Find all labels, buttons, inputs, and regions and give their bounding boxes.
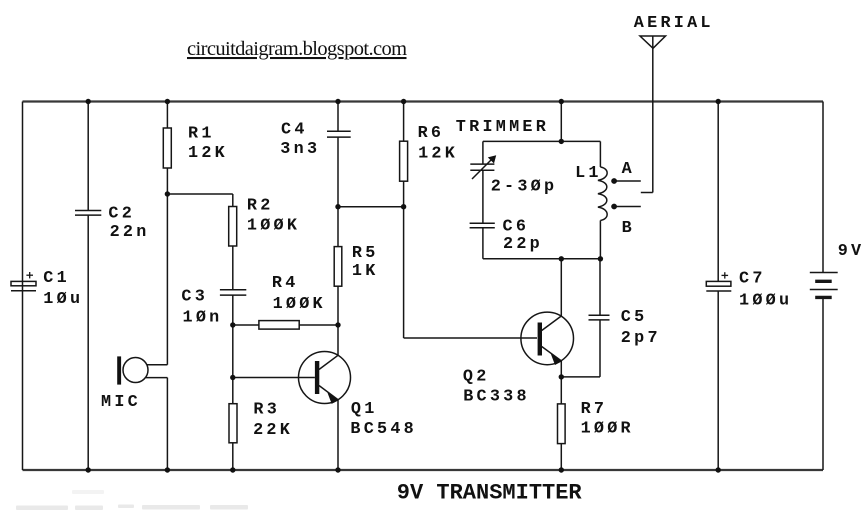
label C2: [108, 205, 149, 243]
svg-text:1ØØK: 1ØØK: [273, 295, 326, 314]
label Q1: [350, 400, 417, 439]
svg-text:22n: 22n: [110, 223, 150, 242]
wire trimmer branch upper: [482, 141, 484, 164]
svg-text:L1: L1: [575, 164, 602, 183]
svg-text:2-3Øp: 2-3Øp: [491, 178, 558, 197]
svg-text:1K: 1K: [352, 262, 379, 281]
label R5: [352, 244, 379, 281]
wire C7 branch: [717, 102, 719, 471]
wire tap A stub: [614, 180, 641, 182]
wire L1 bottom: [599, 220, 601, 258]
label R6: [418, 124, 458, 163]
wire R7 branch: [560, 377, 562, 404]
resistor R7: [558, 404, 566, 444]
wire tank top: [483, 140, 601, 142]
node ground / R3: [230, 467, 235, 472]
node ground / C7: [716, 467, 721, 472]
label C3: [181, 287, 222, 327]
svg-text:AERIAL: AERIAL: [634, 14, 714, 33]
wire R1 to R2 tee: [167, 193, 232, 195]
svg-text:9V TRANSMITTER: 9V TRANSMITTER: [397, 481, 583, 506]
resistor R3: [229, 404, 237, 443]
label C6: [503, 217, 543, 254]
label R3: [253, 401, 293, 441]
wire R6 bottom down: [403, 181, 405, 338]
svg-text:1ØØR: 1ØØR: [581, 420, 634, 439]
svg-text:BC338: BC338: [463, 388, 530, 407]
wire R1 bottom to mic: [166, 168, 168, 365]
label R1: [188, 125, 228, 163]
capacitor C6: [470, 223, 495, 228]
wire R2 bottom to C3: [232, 246, 234, 290]
capacitor C4: [327, 131, 351, 137]
label R4: [272, 274, 326, 314]
wire Q1 emitter to ground: [337, 400, 339, 470]
inductor L1: [598, 167, 607, 220]
wire Q1 base: [233, 377, 315, 379]
transistor Q1: [299, 352, 351, 404]
node C4/R6 tee left: [335, 204, 340, 209]
svg-text:R7: R7: [581, 400, 608, 419]
label C4: [280, 120, 320, 159]
battery 9V: [810, 273, 838, 298]
capacitor C5: [589, 315, 610, 320]
wire C5 branch: [561, 259, 600, 377]
wire R5 bottom to Q1 collector: [337, 286, 339, 355]
wire bottom ground rail: [23, 469, 824, 471]
node top rail / C7: [716, 99, 721, 104]
svg-text:C6: C6: [503, 217, 530, 236]
trimmer capacitor 2-30p: [470, 155, 496, 179]
node top rail / C2: [86, 99, 91, 104]
svg-text:C1: C1: [43, 269, 70, 288]
node Q2 emitter / C5 / R7: [559, 374, 564, 379]
node tank bottom / Q2 collector: [559, 256, 564, 261]
node ground / R7: [559, 467, 564, 472]
node top rail / R1: [165, 99, 170, 104]
wire R1/MIC branch upper: [166, 102, 168, 129]
wire Q2 collector: [560, 259, 562, 316]
svg-text:MIC: MIC: [101, 393, 141, 412]
node tank bottom / C5: [598, 256, 603, 261]
svg-text:R2: R2: [247, 197, 274, 216]
label R7: [581, 400, 634, 439]
svg-text:R3: R3: [253, 401, 280, 420]
transistor Q2: [521, 312, 574, 365]
label R2: [247, 197, 300, 236]
svg-text:Q1: Q1: [351, 400, 378, 419]
node R4 right / R5 bottom: [335, 322, 340, 327]
capacitor C3: [220, 290, 246, 295]
wire R4 left: [233, 324, 259, 326]
wire tank bottom: [483, 258, 601, 260]
wire R4 right: [299, 324, 338, 326]
svg-text:1Øu: 1Øu: [43, 290, 83, 309]
wire right rail upper (battery +): [822, 102, 824, 273]
resistor R1: [163, 128, 171, 168]
wire R6 branch top: [403, 102, 405, 142]
wire Q2 base: [404, 337, 537, 339]
svg-text:C3: C3: [181, 287, 208, 306]
svg-text:R4: R4: [272, 274, 299, 293]
svg-text:C5: C5: [621, 308, 648, 327]
node ground / MIC: [165, 467, 170, 472]
svg-text:circuitdaigram.blogspot.com: circuitdaigram.blogspot.com: [187, 38, 407, 60]
node L1 tap A: [611, 178, 617, 184]
label C5: [621, 308, 661, 348]
svg-text:Q2: Q2: [463, 368, 490, 387]
wire C6 bottom: [482, 228, 484, 259]
resistor R6: [400, 141, 408, 181]
node ground / Q1 emitter: [335, 467, 340, 472]
node tank top feed: [559, 139, 564, 144]
wire Q2 emitter: [560, 361, 562, 377]
node L1 tap B: [611, 204, 617, 210]
svg-text:TRIMMER: TRIMMER: [456, 118, 549, 137]
wire R3 bottom: [232, 443, 234, 470]
capacitor C2: [75, 211, 101, 216]
wire right rail lower (battery -): [822, 297, 824, 470]
microphone MIC: [117, 356, 167, 384]
wire tank feed from rail: [560, 102, 562, 142]
svg-text:BC548: BC548: [350, 420, 417, 439]
wire tap B stub: [614, 206, 641, 208]
svg-text:12K: 12K: [188, 144, 228, 163]
wire R7 bottom: [560, 444, 562, 470]
node C4/R6 tee right: [401, 204, 406, 209]
antenna aerial symbol: [640, 36, 666, 193]
wire L1 branch top: [599, 141, 601, 167]
label C1: [43, 269, 83, 309]
svg-text:R1: R1: [188, 125, 215, 144]
svg-text:9V: 9V: [838, 242, 865, 261]
svg-text:3n3: 3n3: [280, 140, 320, 159]
resistor R5: [334, 247, 342, 287]
svg-text:A: A: [622, 160, 635, 179]
wire C3 to R3: [232, 295, 234, 404]
resistor R2: [229, 207, 237, 247]
wire C4 to R6 tee: [338, 206, 404, 208]
node top rail / R6: [401, 99, 406, 104]
wire trimmer to C6: [482, 170, 484, 223]
node Q1 base tee: [230, 375, 235, 380]
svg-text:1Øn: 1Øn: [183, 309, 223, 328]
resistor R4: [259, 321, 299, 330]
capacitor C7 (electrolytic): [706, 272, 731, 291]
wire C2 branch: [87, 102, 89, 471]
svg-text:1ØØu: 1ØØu: [739, 292, 792, 311]
svg-text:B: B: [622, 219, 635, 238]
wire C4 branch top: [337, 102, 339, 132]
svg-text:12K: 12K: [418, 145, 458, 164]
wire C4 to R5: [337, 137, 339, 247]
node R4 left: [230, 322, 235, 327]
faint cropped caption remnant bottom-left: [16, 490, 248, 510]
wire R2 branch top: [232, 194, 234, 207]
svg-text:C7: C7: [739, 269, 766, 288]
svg-text:2p7: 2p7: [621, 329, 661, 348]
svg-text:C4: C4: [281, 120, 308, 139]
wire left rail: [22, 102, 24, 471]
label C7: [739, 269, 792, 310]
node top rail / C4: [335, 99, 340, 104]
svg-text:R5: R5: [352, 244, 379, 263]
node ground / C2: [86, 467, 91, 472]
node R1 bottom tee: [165, 191, 170, 196]
wire top supply rail: [23, 100, 824, 102]
label Q2: [463, 368, 530, 407]
svg-text:R6: R6: [418, 124, 445, 143]
svg-text:1ØØK: 1ØØK: [247, 217, 300, 236]
svg-text:22p: 22p: [503, 235, 543, 254]
svg-text:22K: 22K: [253, 421, 293, 440]
wire mic lower segment: [166, 378, 168, 470]
capacitor C1 (electrolytic): [11, 272, 36, 291]
node top rail / tank feed: [559, 99, 564, 104]
svg-text:C2: C2: [108, 205, 135, 224]
